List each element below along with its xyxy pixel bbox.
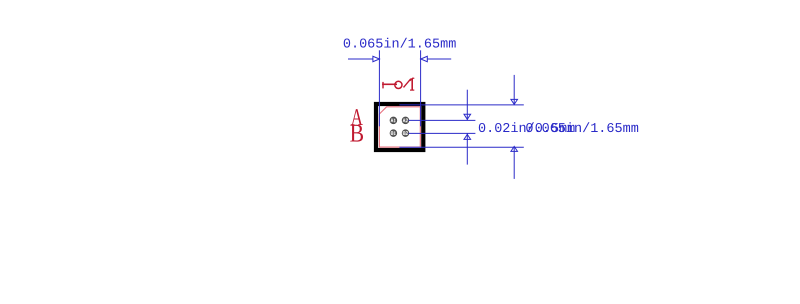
ball A2 — [402, 117, 409, 124]
width dimension line left segment with arrow — [348, 56, 379, 61]
leader line ball row B — [409, 132, 476, 134]
column label 2 (red, rotated 90deg) — [395, 78, 415, 90]
ball B2 — [402, 130, 409, 137]
extension line right — [420, 50, 422, 126]
ball A1 — [390, 117, 397, 124]
extension line left — [378, 50, 380, 126]
leader line ball row A — [409, 119, 476, 121]
column label 1 (red, rotated 90deg) — [382, 82, 397, 89]
land pattern outline with pin-1 chamfer (pink) — [379, 107, 420, 147]
leader line package top edge — [399, 104, 523, 106]
svg-text:0.065in/1.65mm: 0.065in/1.65mm — [525, 122, 638, 137]
svg-text:0.065in/1.65mm: 0.065in/1.65mm — [343, 37, 456, 52]
height dimension line upper segment with down arrow — [511, 75, 518, 105]
svg-text:B: B — [350, 118, 364, 147]
ball B1 — [390, 130, 397, 137]
leader line package bottom edge — [399, 146, 523, 148]
package body outline (black square) — [376, 104, 423, 150]
ball pitch dimension line upper segment with down arrow — [464, 90, 471, 121]
height dimension line lower segment with up arrow — [511, 146, 518, 179]
width dimension line right segment with arrow — [421, 56, 451, 61]
ball pitch dimension line lower segment with up arrow — [464, 133, 471, 164]
